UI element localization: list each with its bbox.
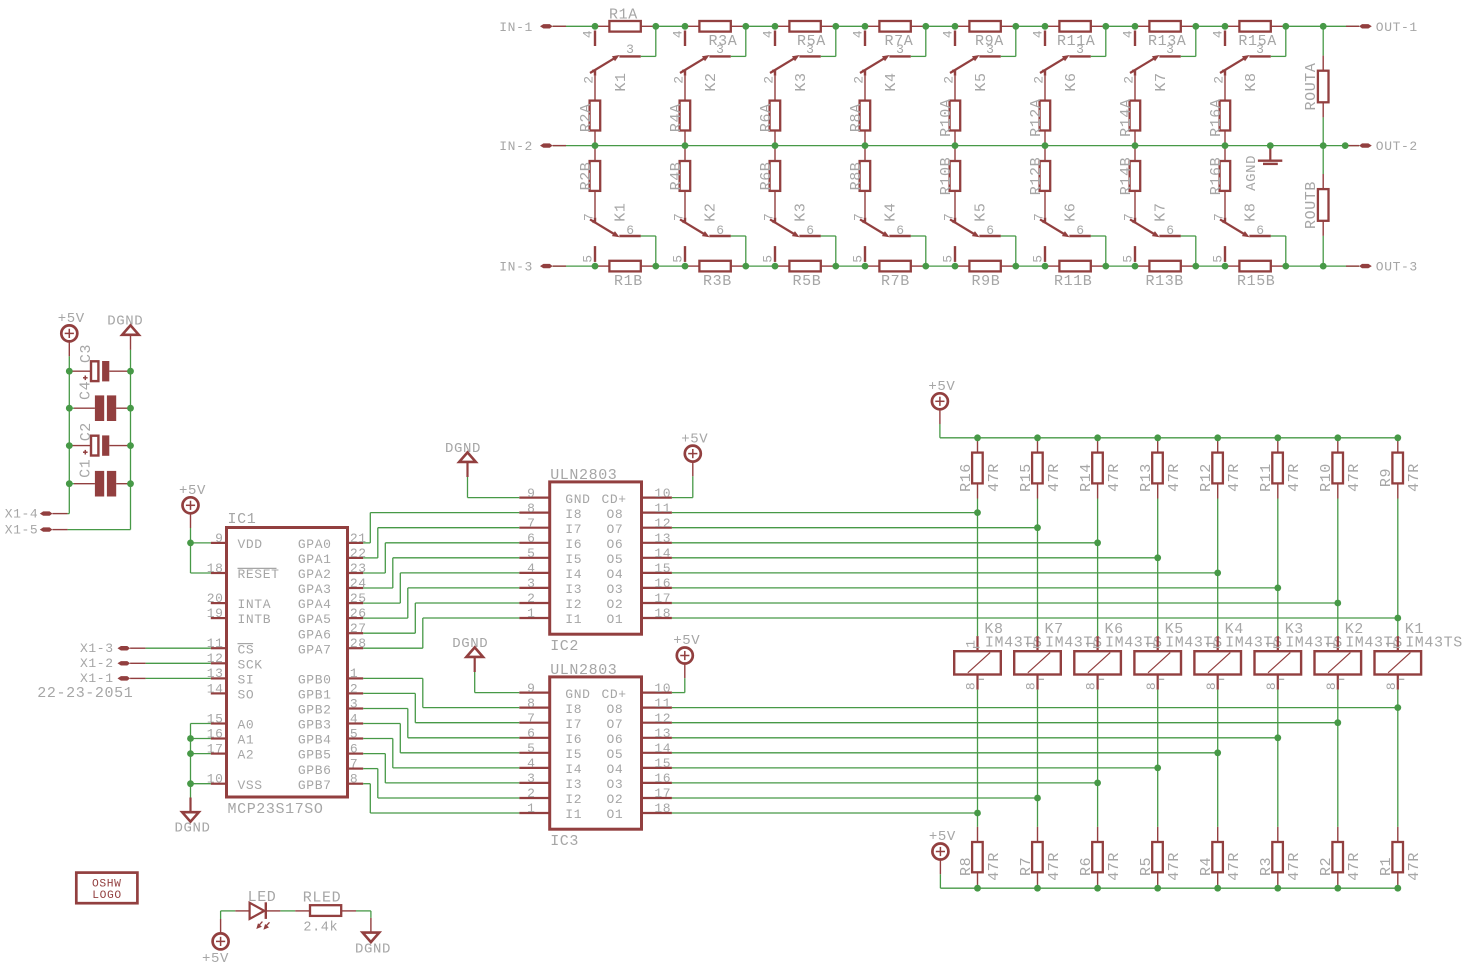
svg-text:15: 15 [654,561,671,576]
svg-text:2: 2 [1122,75,1137,83]
svg-text:6: 6 [1076,223,1084,238]
junction dots IC3 output staircase [974,704,1401,816]
junction dots row A (IN-1/OUT-1) [592,23,1327,30]
svg-text:8: 8 [1324,682,1339,690]
svg-text:+5V: +5V [202,951,229,967]
svg-text:6: 6 [986,223,994,238]
svg-text:I6: I6 [565,537,582,552]
svg-text:A0: A0 [238,718,255,733]
junction dot +5V/VDD [187,540,194,547]
svg-text:4: 4 [761,30,776,38]
svg-text:R1A: R1A [609,7,638,24]
svg-text:47R: 47R [1046,852,1063,881]
svg-text:R15: R15 [1018,463,1035,492]
svg-text:5: 5 [851,254,866,262]
pin IN-3 [499,260,566,275]
relay coil K3 IM43TS [1255,621,1343,690]
svg-text:R14B: R14B [1118,157,1135,195]
svg-text:4: 4 [671,30,686,38]
svg-text:K2: K2 [703,202,720,221]
svg-text:SCK: SCK [238,657,263,672]
svg-text:CD+: CD+ [602,687,627,702]
wire +5V left rail [68,356,70,483]
svg-text:I1: I1 [565,612,582,627]
wire K7 pin6 to row C [1181,236,1196,266]
resistor R15A [1225,21,1286,50]
svg-text:47R: 47R [1286,463,1303,492]
svg-text:47R: 47R [1166,463,1183,492]
svg-text:47R: 47R [1286,852,1303,881]
svg-text:6: 6 [896,223,904,238]
resistor R8 47R [958,827,1003,888]
svg-text:VSS: VSS [238,778,263,793]
svg-text:8: 8 [964,682,979,690]
wire bus IC2 outputs to coil columns [672,513,1398,618]
wire K1 coil to R1 [1397,690,1399,827]
svg-text:DGND: DGND [355,942,391,958]
svg-text:CS: CS [238,642,255,657]
wire X1-1 to IC1 SI [146,677,211,679]
pin X1-1 [80,671,146,686]
wire K8 coil to R8 [977,690,979,827]
svg-text:3: 3 [626,42,634,57]
wire R12 to K4 coil [1217,499,1219,637]
capacitor C3 [69,344,130,382]
capacitor C1 [69,459,130,497]
svg-text:IC2: IC2 [550,638,579,655]
wire X1-5 to DGND rail [68,484,131,530]
wire K5 pin3 to row A [1001,26,1016,56]
svg-text:47R: 47R [1106,463,1123,492]
svg-text:LED: LED [248,889,277,906]
junction dots coil bottom bus [974,885,1401,892]
svg-text:26: 26 [350,606,367,621]
svg-text:A1: A1 [238,733,255,748]
wire K5 coil to R5 [1157,690,1159,827]
svg-text:18: 18 [654,801,671,816]
svg-text:1: 1 [1023,639,1038,647]
svg-text:GPB3: GPB3 [298,718,332,733]
power +5V (IC2 CD+) [681,431,708,476]
svg-text:R11B: R11B [1054,273,1092,290]
OSHW logo placeholder box [76,873,137,904]
svg-text:2: 2 [527,786,535,801]
svg-text:3: 3 [1076,42,1084,57]
svg-text:7: 7 [672,213,687,221]
svg-text:I8: I8 [565,702,582,717]
svg-text:5: 5 [527,741,535,756]
svg-text:18: 18 [207,561,224,576]
svg-text:15: 15 [207,711,224,726]
resistor R15 47R [1018,438,1063,499]
svg-text:IC1: IC1 [228,511,257,528]
svg-text:O5: O5 [607,747,624,762]
wire X1-4 to +5V rail [68,484,70,514]
svg-text:DGND: DGND [174,821,210,837]
wire +5V to IC3 CD+ pin 10 [672,678,685,692]
svg-text:R9: R9 [1378,468,1395,487]
wire K6 coil to R6 [1097,690,1099,827]
svg-text:7: 7 [527,711,535,726]
wire K4 pin3 to row A [911,26,926,56]
svg-text:3: 3 [716,42,724,57]
wire IC1 A0/A1/A2/VSS ground rail [191,724,211,798]
svg-text:8: 8 [1384,682,1399,690]
resistor R2 47R [1318,827,1363,888]
svg-text:GND: GND [565,492,590,507]
svg-text:K8: K8 [1243,202,1260,221]
svg-text:47R: 47R [1346,463,1363,492]
junction dots IC2 output staircase [974,509,1401,621]
wire K3 pin6 to row C [821,236,836,266]
diode LED [235,889,280,930]
svg-text:+5V: +5V [929,829,956,845]
svg-text:13: 13 [654,726,671,741]
relay contact K1a (pins 4-3-2) [581,30,641,101]
relay coil K4 IM43TS [1194,621,1282,690]
svg-text:R12: R12 [1198,463,1215,492]
svg-text:R5: R5 [1138,857,1155,876]
svg-text:ULN2803: ULN2803 [550,662,617,679]
svg-text:R5B: R5B [793,273,822,290]
svg-text:I6: I6 [565,732,582,747]
wire K2 coil to R2 [1337,690,1339,827]
wire K3 coil to R3 [1277,690,1279,827]
wire +5V to IC1 VDD and RESET [191,528,211,573]
svg-text:5: 5 [941,254,956,262]
svg-text:LOGO: LOGO [92,890,122,902]
svg-text:10: 10 [654,681,671,696]
svg-text:5: 5 [350,726,358,741]
wire DGND to IC2 GND pin 9 [468,477,520,498]
svg-text:R8A: R8A [848,103,865,132]
wire X1-3 to IC1 CS [146,647,211,649]
svg-text:7: 7 [582,213,597,221]
svg-text:3: 3 [350,696,358,711]
svg-text:O5: O5 [607,552,624,567]
svg-text:C1: C1 [78,459,95,478]
resistor R6B [758,146,780,191]
svg-text:K4: K4 [883,72,900,91]
wire +5V bottom coil bus [940,874,1397,888]
wire K1 pin3 to row A [641,26,656,56]
svg-text:1: 1 [1264,639,1279,647]
relay coil K8 IM43TS [954,621,1042,690]
resistor R11A [1045,21,1106,50]
svg-text:5: 5 [1211,254,1226,262]
resistor R7 47R [1018,827,1063,888]
resistor R9A [955,21,1016,50]
svg-text:14: 14 [654,741,671,756]
svg-text:I8: I8 [565,507,582,522]
svg-text:6: 6 [1256,223,1264,238]
svg-text:5: 5 [527,546,535,561]
svg-text:GND: GND [565,687,590,702]
svg-text:OUT-3: OUT-3 [1376,260,1418,275]
svg-text:I4: I4 [565,762,582,777]
svg-text:R12B: R12B [1028,157,1045,195]
pin OUT-3 [1346,260,1418,275]
svg-text:I5: I5 [565,552,582,567]
svg-text:K1: K1 [613,72,630,91]
svg-text:X1-1: X1-1 [80,671,114,686]
svg-text:GPA5: GPA5 [298,612,332,627]
svg-text:DGND: DGND [107,313,143,329]
svg-text:O6: O6 [607,537,624,552]
wire K2 pin6 to row C [731,236,746,266]
svg-text:1: 1 [1144,639,1159,647]
svg-text:3: 3 [806,42,814,57]
svg-text:ROUTA: ROUTA [1303,62,1320,110]
svg-text:16: 16 [654,576,671,591]
svg-text:2: 2 [762,75,777,83]
resistor R4A [668,101,690,146]
svg-text:1: 1 [527,606,535,621]
svg-text:SO: SO [238,688,255,703]
svg-text:R4B: R4B [668,162,685,191]
wire R15 to K7 coil [1037,499,1039,637]
svg-text:13: 13 [654,531,671,546]
svg-text:6: 6 [806,223,814,238]
power +5V (coil bottom bus) [929,829,956,874]
svg-text:12: 12 [207,651,224,666]
svg-text:1: 1 [527,801,535,816]
svg-text:R16: R16 [958,463,975,492]
svg-text:9: 9 [527,486,535,501]
svg-text:4: 4 [1031,30,1046,38]
svg-text:2: 2 [942,75,957,83]
svg-text:I2: I2 [565,792,582,807]
svg-text:8: 8 [1144,682,1159,690]
pin IN-1 [499,20,566,35]
pin OUT-1 [1346,20,1418,35]
svg-text:X1-3: X1-3 [80,641,114,656]
svg-text:4: 4 [350,711,358,726]
svg-text:16: 16 [207,726,224,741]
svg-text:R13: R13 [1138,463,1155,492]
svg-text:I5: I5 [565,747,582,762]
svg-text:3: 3 [527,576,535,591]
relay coil K7 IM43TS [1014,621,1102,690]
svg-text:1: 1 [1084,639,1099,647]
svg-text:R13B: R13B [1146,273,1184,290]
svg-text:R6B: R6B [758,162,775,191]
svg-text:C3: C3 [78,344,95,363]
wire R10 to K2 coil [1337,499,1339,637]
svg-text:MCP23S17SO: MCP23S17SO [228,801,324,818]
resistor R1B [595,261,656,290]
svg-text:7: 7 [1032,213,1047,221]
svg-text:R16A: R16A [1208,98,1225,136]
svg-text:2: 2 [672,75,687,83]
pin X1-3 [80,641,146,656]
svg-text:4: 4 [1121,30,1136,38]
svg-text:2: 2 [1212,75,1227,83]
svg-text:O3: O3 [607,777,624,792]
svg-text:47R: 47R [1106,852,1123,881]
resistor R9B [955,261,1016,290]
svg-text:20: 20 [207,591,224,606]
svg-text:8: 8 [1264,682,1279,690]
resistor R2B [578,146,600,191]
ground DGND (IC3 GND) [452,636,488,672]
pin X1-5 [5,523,68,538]
svg-text:17: 17 [654,786,671,801]
svg-text:R16B: R16B [1208,157,1225,195]
wire K1 pin6 to row C [641,236,656,266]
wire IN-2 horizontal bus (row B) [553,145,1360,147]
relay contact K2b (pins 7-6-5) [671,191,731,263]
svg-text:10: 10 [654,486,671,501]
svg-text:7: 7 [852,213,867,221]
svg-text:K5: K5 [973,72,990,91]
relay coil K2 IM43TS [1315,621,1403,690]
wire bus IC3 outputs to coil columns [672,708,1398,813]
svg-text:8: 8 [1024,682,1039,690]
svg-text:O7: O7 [607,522,624,537]
svg-text:IC3: IC3 [550,833,579,850]
wire IN-1 horizontal bus (row A) [553,25,1360,27]
IC U1 MCP23S17SO (IC1) [207,511,367,818]
svg-text:A2: A2 [238,748,255,763]
svg-text:O2: O2 [607,597,624,612]
svg-text:K7: K7 [1153,72,1170,91]
svg-text:5: 5 [581,254,596,262]
svg-text:GPA1: GPA1 [298,552,332,567]
svg-text:8: 8 [1084,682,1099,690]
wire RLED to DGND [356,911,371,918]
svg-text:17: 17 [207,742,224,757]
svg-text:9: 9 [215,531,223,546]
svg-text:RESET: RESET [238,567,280,582]
svg-text:IN-3: IN-3 [499,260,533,275]
relay contact K6a (pins 4-3-2) [1031,30,1091,101]
svg-text:IN-2: IN-2 [499,139,533,154]
svg-text:AGND: AGND [1244,155,1260,191]
svg-text:4: 4 [581,30,596,38]
svg-text:8: 8 [1204,682,1219,690]
relay contact K8a (pins 4-3-2) [1211,30,1271,101]
resistor R5A [775,21,836,50]
resistor R10B [938,146,960,196]
svg-text:R10A: R10A [938,98,955,136]
relay contact K3b (pins 7-6-5) [761,191,821,263]
svg-text:3: 3 [527,771,535,786]
svg-text:7: 7 [350,757,358,772]
svg-text:R7B: R7B [881,273,910,290]
svg-text:4: 4 [851,30,866,38]
svg-text:3: 3 [896,42,904,57]
svg-text:GPA4: GPA4 [298,597,332,612]
relay contact K2a (pins 4-3-2) [671,30,731,101]
svg-text:R8B: R8B [848,162,865,191]
resistor R6A [758,101,780,146]
svg-text:8: 8 [527,696,535,711]
svg-text:1: 1 [963,639,978,647]
svg-text:+5V: +5V [928,379,955,395]
junction dots coil top bus [974,434,1401,441]
svg-text:47R: 47R [1346,852,1363,881]
svg-text:3: 3 [1256,42,1264,57]
svg-text:K3: K3 [793,72,810,91]
svg-text:O1: O1 [607,807,624,822]
svg-text:R15B: R15B [1237,273,1275,290]
resistor R3 47R [1258,827,1303,888]
svg-text:R4: R4 [1198,857,1215,876]
svg-text:5: 5 [671,254,686,262]
svg-text:4: 4 [527,756,535,771]
power +5V (LED) [202,919,229,967]
wire bus IC1 GPA to IC2 inputs [363,513,519,649]
resistor R5B [775,261,836,290]
svg-text:I3: I3 [565,777,582,792]
wire K4 pin6 to row C [911,236,926,266]
svg-text:+5V: +5V [681,431,708,447]
IC IC3 ULN2803 [519,662,672,850]
junction dots row C (IN-3/OUT-3) [592,263,1327,270]
svg-text:GPA0: GPA0 [298,537,332,552]
relay contact K5a (pins 4-3-2) [941,30,1001,101]
svg-text:1: 1 [350,666,358,681]
resistor R12 47R [1198,438,1243,499]
svg-text:I4: I4 [565,567,582,582]
wire R13 to K5 coil [1157,499,1159,637]
resistor R7B [865,261,926,290]
ground DGND (IC2 GND) [445,441,481,477]
svg-text:1: 1 [1384,639,1399,647]
svg-text:R1B: R1B [614,273,643,290]
svg-text:R7: R7 [1018,857,1035,876]
svg-text:1: 1 [1324,639,1339,647]
svg-text:C4: C4 [78,381,95,400]
svg-text:7: 7 [527,516,535,531]
svg-text:6: 6 [527,531,535,546]
svg-text:I2: I2 [565,597,582,612]
power +5V (IC3 CD+) [673,633,700,678]
resistor R16A [1208,98,1230,145]
capacitor C2 [69,422,130,456]
resistor R1A [595,7,656,32]
svg-text:K5: K5 [973,202,990,221]
svg-text:2: 2 [852,75,867,83]
wire R11 to K3 coil [1277,499,1279,637]
power +5V (IC1 VDD) [179,483,206,528]
resistor R10 47R [1318,438,1363,499]
svg-text:4: 4 [941,30,956,38]
svg-text:7: 7 [942,213,957,221]
wire LED to RLED [280,910,295,912]
svg-text:K7: K7 [1153,202,1170,221]
svg-text:14: 14 [654,546,671,561]
resistor R9 47R [1378,438,1423,499]
svg-text:6: 6 [716,223,724,238]
junction dots row B (IN-2/OUT-2) [592,142,1349,149]
svg-text:O1: O1 [607,612,624,627]
resistor R3A [685,21,746,50]
wire K5 pin6 to row C [1001,236,1016,266]
svg-text:24: 24 [350,576,367,591]
svg-text:7: 7 [1212,213,1227,221]
resistor R16B [1208,146,1230,196]
relay coil K1 IM43TS [1375,621,1463,690]
resistor R2A [578,101,600,146]
relay contact K3a (pins 4-3-2) [761,30,821,101]
relay coil K6 IM43TS [1074,621,1162,690]
wire K2 pin3 to row A [731,26,746,56]
resistor R11B [1045,261,1106,290]
resistor R12B [1028,146,1050,196]
svg-text:8: 8 [350,772,358,787]
